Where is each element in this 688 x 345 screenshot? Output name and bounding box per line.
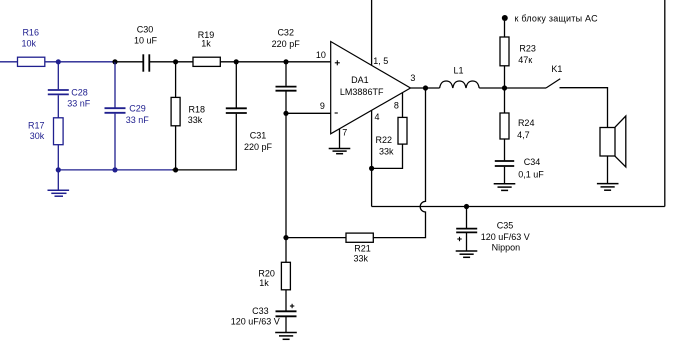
svg-text:3: 3 (410, 73, 415, 83)
inductor L1 (440, 65, 480, 88)
wire pin 8 (402, 93, 404, 118)
ground (blue) (48, 170, 70, 196)
wire C29 to ground rail (114, 114, 116, 170)
wire K1 to speaker (560, 88, 608, 128)
svg-text:R22: R22 (376, 135, 393, 145)
resistor R17 (28, 118, 63, 145)
svg-text:33 nF: 33 nF (67, 98, 91, 108)
resistor R19 (193, 30, 220, 66)
wire pin 4 down (371, 110, 373, 168)
capacitor C33 (231, 304, 297, 327)
node B (112, 59, 117, 64)
resistor R16 (18, 28, 45, 67)
node output (423, 85, 428, 90)
wire speaker to ground (607, 156, 609, 183)
svg-text:220 pF: 220 pF (272, 39, 301, 49)
wire node H down to rail (371, 168, 373, 206)
wire bottom ground rail (blue) (58, 169, 172, 171)
svg-text:C31: C31 (250, 131, 267, 141)
svg-text:K1: K1 (551, 64, 562, 74)
wire node E down (235, 62, 237, 108)
svg-text:33k: 33k (354, 254, 369, 264)
resistor R20 (258, 262, 290, 290)
wire C30 to R19 (150, 61, 193, 63)
wire node A down (57, 62, 59, 90)
svg-text:10 uF: 10 uF (134, 35, 158, 45)
svg-text:C33: C33 (252, 306, 269, 316)
wire L1 to K1 (479, 87, 546, 89)
svg-text:30k: 30k (30, 131, 45, 141)
svg-text:120 uF/63 V: 120 uF/63 V (481, 232, 530, 242)
svg-text:C28: C28 (71, 88, 88, 98)
wire node G to op-amp pin 9 (286, 112, 331, 114)
wire right edge up (664, 0, 666, 207)
wire node C down (175, 62, 177, 98)
svg-text:10k: 10k (21, 39, 36, 49)
capacitor C31 (226, 108, 273, 152)
node rail mid (112, 167, 117, 172)
svg-text:1k: 1k (259, 278, 269, 288)
wire C34 to ground (504, 167, 506, 184)
resistor R18 (171, 97, 205, 125)
node C (173, 59, 178, 64)
svg-text:C32: C32 (277, 28, 294, 38)
ground (speaker) (597, 184, 619, 191)
wire C28 to R17 (57, 95, 59, 118)
wire node I to R20 (285, 238, 287, 263)
node C35 on rail (464, 204, 469, 209)
svg-text:0,1 uF: 0,1 uF (518, 169, 544, 179)
wire R23 to node (504, 66, 506, 88)
svg-text:7: 7 (342, 128, 347, 138)
wire node to R24 (504, 88, 506, 113)
wire node B down (114, 62, 116, 108)
wire R22 bottom to node H (372, 144, 403, 168)
svg-text:C34: C34 (524, 157, 541, 167)
ground (C35) (456, 251, 478, 257)
wire feedback with hop (373, 88, 426, 238)
svg-text:8: 8 (394, 101, 399, 111)
wire pin 1,5 up (371, 0, 373, 65)
svg-text:1k: 1k (201, 39, 211, 49)
wire R17 to ground rail (57, 145, 59, 170)
svg-text:R18: R18 (189, 105, 206, 115)
svg-text:33 nF: 33 nF (126, 115, 150, 125)
node H (369, 166, 374, 171)
terminal to protection block (502, 15, 508, 21)
svg-text:C35: C35 (497, 221, 514, 231)
wire node B to C30 (115, 61, 143, 63)
svg-text:R24: R24 (518, 118, 535, 128)
wire R16 to C30 (blue part) (45, 61, 115, 63)
switch K1 (546, 64, 562, 88)
svg-text:4,7: 4,7 (517, 130, 530, 140)
ground (pin 7) (329, 149, 351, 154)
capacitor C34 (495, 157, 544, 180)
capacitor C29 (105, 103, 150, 125)
svg-text:C30: C30 (137, 24, 154, 34)
svg-text:R16: R16 (22, 28, 39, 38)
resistor R24 (500, 113, 534, 140)
node D (173, 167, 178, 172)
capacitor C35 (456, 221, 530, 253)
svg-text:R21: R21 (354, 243, 371, 253)
svg-text:220 pF: 220 pF (244, 142, 273, 152)
svg-text:4: 4 (374, 112, 379, 122)
svg-text:1, 5: 1, 5 (373, 56, 388, 66)
node rail left (56, 167, 61, 172)
svg-text:DA1: DA1 (351, 75, 369, 85)
wire rail to C35 (466, 207, 468, 229)
wire terminal to R23 (504, 21, 506, 37)
wire node G down to node I (285, 113, 287, 237)
node E (234, 59, 239, 64)
wire R21 to node I (286, 237, 346, 239)
ground (C34) (494, 184, 516, 191)
svg-text:9: 9 (320, 101, 325, 111)
capacitor C28 (48, 88, 91, 109)
capacitor C32 (272, 28, 301, 91)
speaker (600, 116, 626, 167)
svg-text:47к: 47к (518, 55, 532, 65)
op-amp DA1 LM3886TF (331, 42, 411, 134)
svg-text:33k: 33k (188, 115, 203, 125)
wire C33 to ground (285, 317, 287, 332)
svg-text:C29: C29 (129, 103, 146, 113)
wire R18 to node D (175, 126, 177, 170)
wire C35 to ground (466, 233, 468, 251)
wire node D to C31 bottom (172, 114, 236, 170)
svg-text:R17: R17 (28, 120, 45, 130)
wire R19 to op-amp pin 10 (220, 61, 330, 63)
node G (283, 111, 288, 116)
wire C32 to node G (285, 91, 287, 113)
resistor R22 (376, 117, 407, 156)
node output rail (502, 85, 507, 90)
svg-text:R23: R23 (519, 44, 536, 54)
node F (283, 59, 288, 64)
wire V- rail (372, 206, 665, 208)
wire output pin 3 (411, 87, 440, 89)
svg-text:120 uF/63 V: 120 uF/63 V (231, 316, 280, 326)
resistor R21 (346, 233, 373, 264)
ground (C33) (275, 333, 297, 340)
svg-text:10: 10 (316, 50, 326, 60)
resistor R23 (500, 37, 536, 66)
wire R24 to C34 (504, 139, 506, 160)
svg-text:L1: L1 (453, 65, 463, 75)
svg-text:33k: 33k (379, 147, 394, 157)
node A (56, 59, 61, 64)
wire pin 7 (339, 129, 341, 149)
node I (283, 235, 288, 240)
svg-text:Nippon: Nippon (492, 243, 521, 253)
svg-text:LM3886TF: LM3886TF (340, 87, 384, 97)
capacitor C30 (134, 24, 158, 71)
svg-text:к блоку защиты АС: к блоку защиты АС (515, 14, 599, 24)
wire node F down (285, 62, 287, 86)
wire R20 to C33 (285, 290, 287, 311)
wire input left (0, 61, 18, 63)
